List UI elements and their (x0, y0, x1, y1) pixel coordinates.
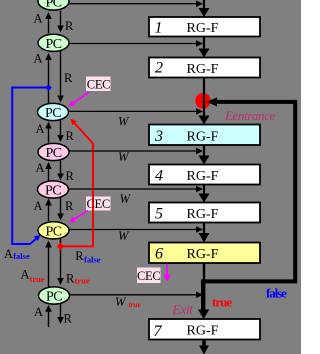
op PC7 (39, 287, 70, 305)
svg-text:A: A (34, 199, 43, 213)
op PC3 (38, 103, 69, 121)
svg-text:R: R (65, 199, 74, 213)
svg-text:true: true (30, 274, 45, 284)
svg-text:7: 7 (154, 323, 163, 340)
wire W line from PC6 to trunk (68, 226, 203, 233)
wire W line from PC5 to trunk (68, 186, 203, 193)
svg-text:6: 6 (155, 246, 163, 263)
wire A/R handshake pair PC6-PC7 (true signals) (45, 239, 64, 287)
svg-text:CEC: CEC (86, 197, 109, 211)
svg-text:2: 2 (155, 60, 163, 77)
svg-text:PC: PC (46, 225, 62, 240)
svg-text:RG-F: RG-F (187, 247, 219, 262)
svg-text:Exit: Exit (172, 302, 195, 317)
wire exit arrow below RG-F7 (199, 340, 209, 354)
svg-text:R: R (64, 71, 73, 85)
wire trunk segment RG-F1 to RG-F2 (199, 36, 210, 58)
label A_false (4, 247, 30, 261)
svg-text:RG-F: RG-F (187, 21, 219, 36)
register RG-F 1 (149, 17, 260, 37)
svg-text:1: 1 (155, 20, 163, 37)
label R_false (75, 249, 101, 265)
svg-text:A: A (34, 52, 43, 66)
svg-text:PC: PC (46, 290, 62, 305)
op PC5 (38, 181, 69, 199)
wire A/R handshake pair below PC7 (45, 304, 64, 327)
svg-text:A: A (36, 161, 45, 175)
svg-text:RG-F: RG-F (187, 62, 219, 77)
register RG-F 4 (149, 165, 260, 185)
wire trunk segment into RG-F 1 (199, 0, 210, 17)
svg-text:true: true (75, 276, 90, 286)
register RG-F 3 (149, 125, 260, 146)
svg-text:R: R (66, 129, 75, 143)
wire trunk segment RG-F3 to RG-F4 (199, 145, 210, 165)
wire W_true line from PC7 to trunk (68, 292, 203, 299)
register RG-F 6 (149, 243, 260, 264)
svg-text:A: A (34, 12, 43, 26)
node junction red diamond on R line (57, 243, 64, 250)
CEC arrow 1 into PC3 (69, 92, 90, 107)
svg-text:RG-F: RG-F (187, 169, 219, 184)
svg-text:CEC: CEC (137, 269, 160, 283)
wire trunk segment RG-F2 through entrance node to RG-F3 (199, 78, 210, 125)
svg-text:RG-F: RG-F (187, 207, 219, 222)
svg-text:PC: PC (45, 106, 61, 121)
svg-text:true: true (212, 295, 232, 310)
op PC1 (cut at top) (38, 0, 69, 11)
wire trunk segment RG-F5 to RG-F6 (199, 223, 210, 243)
CEC box 2 (86, 197, 111, 211)
svg-text:false: false (266, 286, 287, 301)
svg-text:RG-F: RG-F (187, 130, 219, 145)
svg-text:PC: PC (45, 184, 61, 199)
svg-text:PC: PC (46, 146, 62, 161)
svg-text:A: A (21, 268, 30, 282)
wire R_false red path from R-line junction right-up to PC3 (61, 119, 94, 247)
svg-text:false: false (84, 254, 101, 264)
svg-text:A: A (36, 122, 45, 136)
register RG-F 2 (149, 58, 260, 78)
wire A/R handshake pair PC4-PC5 (45, 161, 64, 182)
wire W line from PC2 to trunk (68, 40, 203, 47)
svg-text:R: R (64, 312, 73, 326)
wire red line over CEC box 2 (92, 197, 94, 211)
register RG-F 5 (149, 203, 260, 223)
wire W line from PC3 to trunk (68, 108, 203, 115)
CEC box 3 (137, 268, 161, 284)
op PC6 (38, 222, 69, 240)
wire W line from PC4 to trunk (68, 148, 203, 155)
svg-text:W: W (120, 192, 132, 206)
wire A_false blue path from A-line junction down-left around to PC6 (12, 88, 48, 245)
svg-text:A: A (34, 305, 43, 319)
svg-text:R: R (66, 169, 75, 183)
wire trunk segment RG-F4 to RG-F5 (199, 185, 210, 203)
wire A/R handshake pair PC5-PC6 (45, 197, 64, 221)
svg-text:PC: PC (46, 37, 62, 52)
CEC box 1 (86, 77, 111, 92)
svg-text:W: W (118, 150, 130, 164)
wire false loop thick path (right side) (205, 97, 295, 281)
wire A/R handshake pair PC3-PC4 (45, 121, 64, 143)
svg-text:R: R (75, 249, 84, 263)
label A_true (21, 268, 45, 284)
CEC arrow 3 below RG-F6 (163, 264, 171, 282)
op PC2 (38, 34, 69, 52)
svg-text:Eentrance: Eentrance (224, 108, 275, 123)
op PC4 (38, 143, 69, 161)
CEC arrow 2 into PC6 (69, 211, 88, 223)
svg-text:PC: PC (46, 0, 62, 11)
wire A/R handshake pair PC2-PC3 (45, 51, 64, 103)
register RG-F 7 (149, 319, 260, 340)
svg-text:false: false (13, 251, 30, 261)
svg-text:W: W (118, 229, 130, 243)
label W_true (115, 295, 142, 309)
svg-text:true: true (129, 300, 142, 309)
svg-text:A: A (4, 247, 13, 261)
wire trunk segment RG-F6 down to RG-F7 (true branch) (198, 263, 209, 319)
svg-text:5: 5 (155, 206, 163, 223)
node entrance junction (red circle) (195, 93, 211, 109)
svg-text:RG-F: RG-F (187, 324, 219, 339)
node junction blue diamond on A line (45, 84, 52, 91)
label R_true (66, 271, 90, 285)
svg-text:R: R (65, 19, 74, 33)
svg-text:CEC: CEC (87, 78, 110, 92)
svg-text:W: W (118, 115, 130, 129)
wire W line from PC1 to trunk (68, 0, 203, 7)
wire A/R handshake pair PC1-PC2 (45, 11, 64, 34)
svg-text:3: 3 (154, 128, 163, 145)
svg-text:4: 4 (155, 168, 163, 185)
svg-text:W: W (115, 295, 127, 309)
